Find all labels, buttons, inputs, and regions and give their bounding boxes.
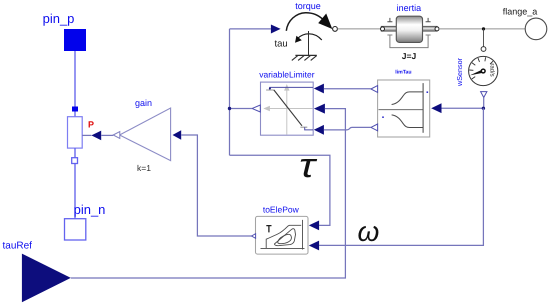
flange_a connector circle bbox=[525, 18, 547, 40]
wSensor hub bbox=[481, 69, 485, 73]
wSensor output connector triangle bbox=[481, 92, 487, 98]
toElePow T label bbox=[266, 226, 271, 233]
limTau icon dot left bbox=[382, 116, 384, 118]
wSensor needle bbox=[470, 69, 484, 75]
limTau upper torque curve bbox=[392, 92, 424, 105]
inertia left perp symbol bbox=[387, 18, 392, 22]
svg-text:tau: tau bbox=[275, 38, 288, 49]
svg-text:toElePow: toElePow bbox=[263, 204, 300, 214]
wire wSensor output down bbox=[483, 98, 485, 109]
svg-text:torque: torque bbox=[295, 1, 321, 11]
torque input arrow bbox=[271, 25, 281, 34]
svg-text:gain: gain bbox=[135, 98, 152, 108]
wire limTau input from omega rail bbox=[442, 107, 484, 109]
svg-text:inertia: inertia bbox=[397, 3, 422, 13]
wire tauRef to variableLimiter u bbox=[71, 109, 346, 278]
limTau upper output connector bbox=[371, 86, 378, 93]
inertia left shaft bbox=[381, 26, 396, 31]
torque support hatching bbox=[292, 56, 317, 61]
shaft inertia to flange_a bbox=[439, 28, 525, 30]
torque arc arrowhead bbox=[318, 14, 332, 30]
toElePow output connector bbox=[252, 234, 256, 239]
svg-text:tauRef: tauRef bbox=[3, 240, 33, 251]
wire tau rail to toElePow tau input bbox=[230, 155, 330, 225]
wire resistor bottom bbox=[74, 148, 76, 158]
toElePow middle contour bbox=[274, 229, 295, 246]
inertia left flange circle bbox=[381, 27, 385, 31]
svg-text:ω: ω bbox=[358, 216, 380, 247]
svg-text:rad/s: rad/s bbox=[488, 63, 495, 76]
inertia right perp symbol bbox=[426, 18, 431, 22]
svg-text:flange_a: flange_a bbox=[503, 7, 538, 17]
tauRef input connector triangle bbox=[22, 254, 71, 303]
limTau icon dot right bbox=[427, 91, 429, 93]
svg-text:J=J: J=J bbox=[402, 51, 417, 61]
wire node up to torque and down to tau rail bbox=[229, 29, 231, 155]
wire to pin_n bbox=[74, 164, 76, 219]
limTau lower output connector bbox=[371, 124, 378, 131]
torque actuation arc bbox=[286, 13, 323, 31]
limTau input arrow bbox=[431, 103, 441, 113]
toElePow block U4 bbox=[256, 216, 309, 254]
toElePow omega input arrow bbox=[309, 241, 319, 251]
reaction arc arrowhead bbox=[295, 36, 302, 43]
shaft junction node bbox=[482, 27, 485, 30]
svg-text:pin_p: pin_p bbox=[43, 11, 75, 26]
toElePow tau input arrow bbox=[309, 221, 319, 231]
variableLimiter u input arrow bbox=[314, 104, 325, 114]
wire variableLimiter.y to torque.tau bbox=[230, 28, 271, 30]
svg-text:wSensor: wSensor bbox=[455, 57, 464, 87]
torque support base bbox=[295, 54, 316, 56]
svg-text:limTau: limTau bbox=[395, 70, 411, 76]
svg-text:pin_n: pin_n bbox=[74, 202, 106, 217]
limTau lower torque curve bbox=[392, 115, 424, 128]
limiter horizontal axis bbox=[268, 108, 313, 110]
toElePow bottom axis bbox=[261, 247, 305, 249]
svg-text:k=1: k=1 bbox=[137, 163, 151, 173]
resistor top pin square bbox=[72, 107, 78, 112]
torque reaction arc bbox=[298, 34, 322, 40]
gain output connector bbox=[113, 132, 120, 139]
wSensor top flange circle bbox=[481, 47, 486, 52]
limiter vertical axis bbox=[286, 89, 288, 135]
variableLimiter output connector bbox=[252, 105, 260, 112]
arrow on wire to resistor bbox=[91, 131, 101, 141]
gain input arrow bbox=[173, 130, 182, 139]
variableLimiter limit1 input arrow bbox=[314, 84, 324, 94]
resistor R (signal power element) bbox=[68, 117, 83, 148]
limTau mid horizontal line bbox=[379, 109, 424, 111]
pin_n connector bbox=[65, 219, 86, 240]
wire variableLimiter.y to node bbox=[230, 108, 253, 110]
wSensor gauge circle bbox=[469, 56, 498, 85]
wire pin square to resistor bbox=[74, 112, 76, 117]
wire resistor to gain arrow bbox=[82, 134, 91, 136]
inertia body J1 bbox=[396, 16, 422, 42]
wire limTau lower output to variableLimiter limit2 bbox=[324, 127, 371, 129]
limit2 internal line bbox=[305, 127, 313, 130]
svg-text:τ: τ bbox=[299, 147, 318, 185]
wire pin_p to resistor pin bbox=[74, 51, 76, 107]
wire limTau upper output to variableLimiter limit1 bbox=[324, 88, 371, 90]
shaft torque to inertia bbox=[337, 28, 380, 30]
toElePow right axis bbox=[302, 220, 304, 250]
svg-text:variableLimiter: variableLimiter bbox=[259, 69, 314, 79]
gain block U1 triangle bbox=[120, 108, 171, 161]
limit1 internal line bbox=[270, 87, 313, 89]
inertia right shaft bbox=[422, 26, 437, 31]
wire junction to wSensor bbox=[483, 29, 485, 47]
toElePow outer contour bbox=[266, 225, 301, 248]
limit1 internal node bbox=[269, 87, 271, 89]
variableLimiter block U2 bbox=[261, 82, 314, 135]
omega junction node bbox=[482, 107, 485, 110]
torque support stem bbox=[308, 31, 310, 55]
toElePow inner contour bbox=[278, 234, 292, 243]
limTau block U3 bbox=[378, 80, 430, 137]
wire gain input from toElePow output bbox=[181, 135, 251, 236]
limiter saturation curve bbox=[266, 90, 307, 127]
inertia bracket bbox=[387, 35, 430, 48]
svg-text:P: P bbox=[88, 120, 94, 130]
torque flange connector circle bbox=[333, 27, 338, 32]
wSensor ticks bbox=[469, 57, 493, 79]
node at variableLimiter.y bbox=[228, 107, 231, 110]
pin_p connector bbox=[64, 29, 86, 51]
inertia right flange circle bbox=[435, 27, 439, 31]
resistor bottom pin square bbox=[72, 158, 78, 164]
wire omega rail down and to toElePow bbox=[319, 108, 483, 245]
wire arrow to gain output bbox=[101, 134, 113, 136]
limTau inner vertical line bbox=[422, 83, 424, 133]
variableLimiter limit2 input arrow bbox=[314, 125, 324, 135]
